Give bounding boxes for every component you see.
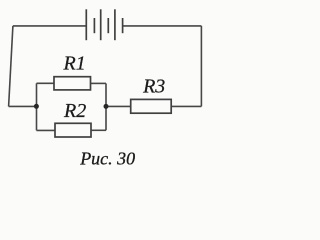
svg-text:R3: R3 xyxy=(142,76,165,98)
svg-text:R2: R2 xyxy=(63,100,86,122)
svg-text:R1: R1 xyxy=(63,53,86,75)
svg-text:Puc. 30: Puc. 30 xyxy=(79,149,135,169)
